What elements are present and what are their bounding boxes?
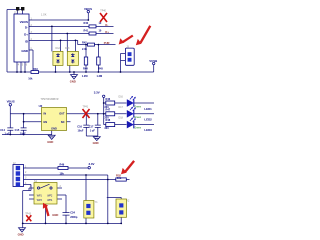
- svg-text:D-: D-: [105, 23, 108, 27]
- svg-text:R47: R47: [106, 107, 111, 111]
- svg-text:GND: GND: [47, 140, 53, 144]
- svg-text:1.2M: 1.2M: [97, 74, 103, 78]
- svg-text:VBUS: VBUS: [20, 20, 28, 24]
- svg-text:1.2M: 1.2M: [82, 74, 88, 78]
- svg-text:LED3: LED3: [144, 128, 152, 132]
- svg-text:GND: GND: [52, 213, 58, 217]
- svg-text:10uF: 10uF: [20, 132, 26, 136]
- svg-text:C16: C16: [77, 124, 82, 128]
- svg-text:C15: C15: [15, 128, 20, 132]
- svg-text:J12: J12: [14, 11, 19, 14]
- svg-text:D16: D16: [119, 96, 124, 99]
- svg-text:GND: GND: [70, 79, 76, 83]
- svg-text:R44: R44: [83, 67, 88, 71]
- svg-text:GND: GND: [93, 141, 99, 145]
- svg-text:R40: R40: [84, 21, 89, 25]
- svg-text:10uF: 10uF: [78, 128, 84, 132]
- svg-text:Green: Green: [134, 105, 142, 108]
- svg-text:R45: R45: [98, 67, 103, 71]
- svg-text:1.OK: 1.OK: [41, 13, 47, 16]
- svg-text:C34: C34: [70, 211, 75, 215]
- svg-text:VBUS: VBUS: [7, 100, 15, 104]
- svg-text:330: 330: [104, 126, 109, 130]
- svg-text:D+: D+: [105, 30, 109, 34]
- svg-text:WP4: WP4: [47, 200, 53, 202]
- svg-text:Green: Green: [134, 116, 142, 119]
- svg-text:LED2: LED2: [144, 118, 152, 122]
- svg-text:WP1: WP1: [37, 196, 43, 198]
- svg-text:R42: R42: [82, 40, 87, 44]
- svg-text:TP40: TP40: [100, 10, 106, 13]
- svg-text:R41: R41: [84, 28, 89, 32]
- svg-text:GND: GND: [51, 126, 57, 130]
- svg-text:GND: GND: [21, 49, 29, 53]
- svg-text:TP43: TP43: [25, 212, 31, 215]
- svg-text:R49: R49: [60, 163, 65, 167]
- svg-text:NC: NC: [61, 120, 65, 124]
- svg-text:10k: 10k: [60, 171, 65, 175]
- svg-text:2200p: 2200p: [70, 215, 78, 219]
- svg-text:Green: Green: [134, 126, 142, 129]
- svg-text:GND: GND: [18, 232, 24, 236]
- svg-text:WP3: WP3: [37, 200, 43, 202]
- svg-text:R48: R48: [106, 118, 111, 122]
- svg-text:1 uF: 1 uF: [90, 128, 96, 132]
- svg-text:C14: C14: [0, 128, 5, 132]
- svg-text:10k: 10k: [28, 76, 33, 80]
- svg-text:D-: D-: [25, 25, 28, 29]
- svg-text:D13: D13: [65, 47, 70, 50]
- svg-text:OUT: OUT: [59, 112, 65, 116]
- svg-text:D12: D12: [56, 47, 61, 50]
- svg-text:VUSB: VUSB: [149, 59, 157, 63]
- svg-text:C17: C17: [89, 124, 94, 128]
- svg-text:TP41: TP41: [83, 106, 89, 109]
- svg-text:2.0k: 2.0k: [82, 47, 88, 51]
- svg-text:D17: D17: [119, 106, 124, 109]
- svg-text:R46: R46: [106, 97, 111, 101]
- svg-text:D18: D18: [119, 117, 124, 120]
- svg-text:R43: R43: [33, 67, 38, 71]
- svg-text:10k: 10k: [117, 176, 122, 180]
- svg-text:PUR: PUR: [104, 41, 110, 45]
- svg-text:IN: IN: [44, 112, 47, 116]
- svg-text:TPS76333DBVR: TPS76333DBVR: [41, 98, 59, 101]
- svg-text:3.3V: 3.3V: [89, 162, 95, 166]
- svg-text:D+: D+: [24, 33, 28, 37]
- svg-text:EN: EN: [44, 120, 48, 124]
- svg-text:3.3V: 3.3V: [94, 91, 100, 95]
- svg-text:1 uF: 1 uF: [5, 132, 11, 136]
- svg-text:WP2: WP2: [47, 196, 53, 198]
- svg-text:LED1: LED1: [144, 107, 152, 111]
